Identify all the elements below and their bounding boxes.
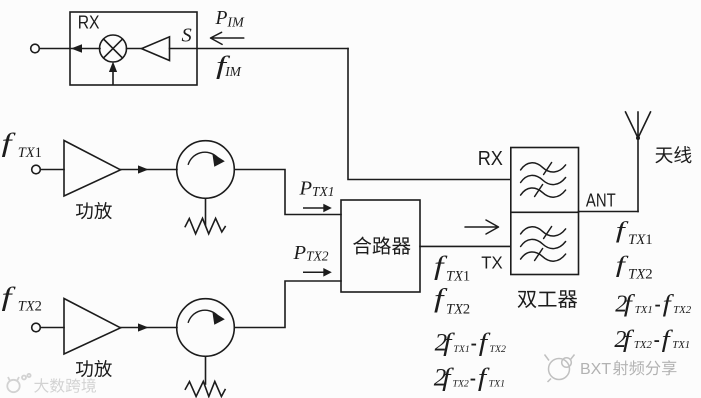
svg-text:ANT: ANT — [586, 190, 616, 211]
svg-text:RX: RX — [78, 13, 100, 33]
svg-text:TX: TX — [481, 253, 503, 273]
svg-text:S: S — [182, 25, 192, 47]
svg-text:BXT: BXT — [580, 361, 611, 378]
svg-text:RX: RX — [478, 148, 503, 170]
